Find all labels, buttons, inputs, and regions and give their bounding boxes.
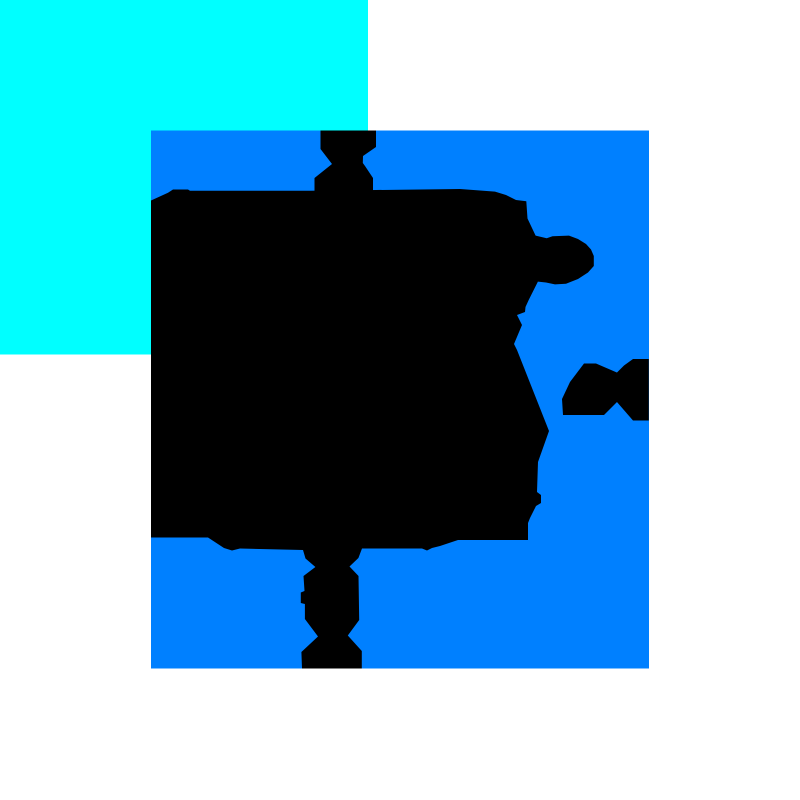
bowtie left half (node X marker): [562, 364, 618, 416]
component body U1 (main black mass): [151, 189, 594, 669]
cyan region (net highlight): [0, 0, 368, 355]
crystal X1 (top hourglass symbol): [315, 131, 377, 192]
bowtie right half (node X marker): [617, 359, 649, 421]
blue region (schematic sheet): [151, 131, 649, 669]
